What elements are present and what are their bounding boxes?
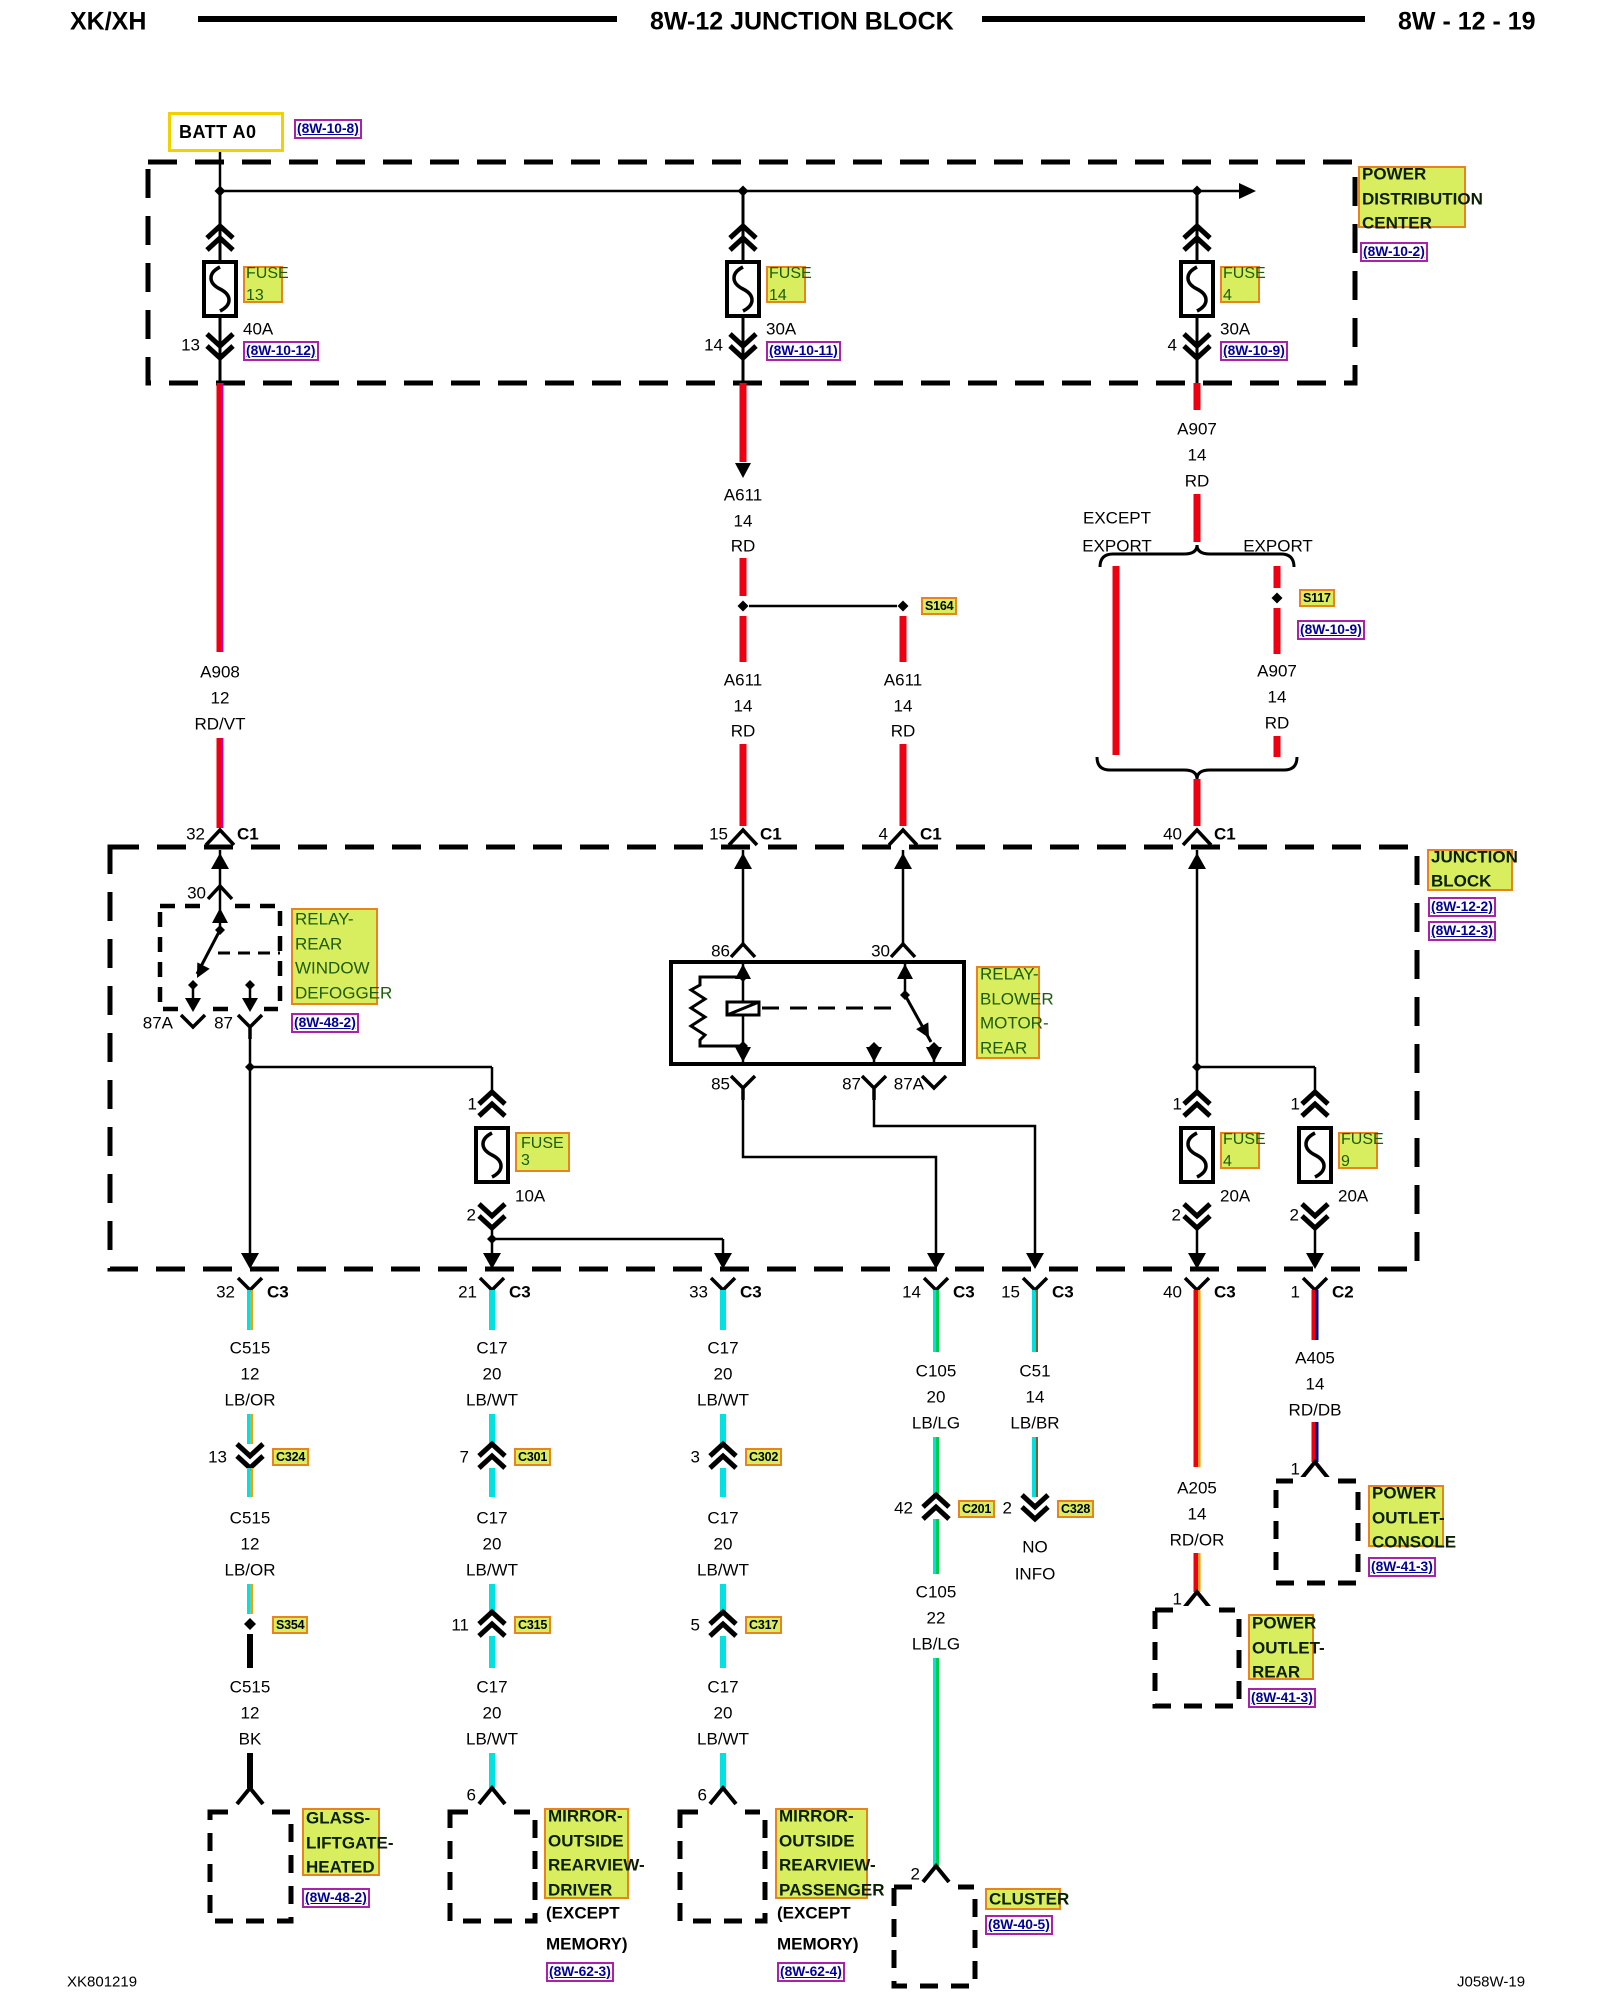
pin 14 label at C3 <box>902 1284 921 1301</box>
splice S164 node right <box>898 601 909 612</box>
blower relay switch pivot <box>900 990 910 1000</box>
fuse 4 pin 1 chevrons <box>1184 1092 1210 1116</box>
pin 7 label at C301 <box>460 1449 469 1466</box>
mirror outside rearview Passenger label <box>775 1808 868 1899</box>
wire label C17 at x492 <box>476 1340 507 1357</box>
relay rear window defogger pin 30 connector <box>208 886 232 899</box>
pin 13 label at C324 <box>208 1449 227 1466</box>
wire label 14 at x1315 <box>1306 1376 1325 1393</box>
relay rear window defogger label <box>291 908 378 1005</box>
Driver except memory note <box>546 1905 620 1922</box>
wire A907 to C1 <box>1194 779 1201 826</box>
connector C315 label <box>514 1616 551 1634</box>
link 8W-12-3 <box>1428 921 1496 941</box>
wire A611 from fuse 14 segment 1 <box>740 383 747 462</box>
splice S117 node <box>1272 593 1283 604</box>
fuse F4 rating 30A <box>1220 321 1250 338</box>
wire C51 LB/BR segment 1 <box>1032 1290 1036 1352</box>
pin 4 label at C1 <box>879 826 888 843</box>
connector C328 label <box>1057 1500 1094 1518</box>
fuse 4 pin 2 chevrons <box>1184 1204 1210 1228</box>
wire label 20 at x492 <box>483 1536 502 1553</box>
wire label LB/WT at x723 <box>697 1392 749 1409</box>
wire label A611 left branch <box>724 672 762 689</box>
connector chevrons above fuse 14 <box>730 226 756 250</box>
wire fuse 4 output to connector <box>1196 1228 1199 1266</box>
wire label LB/WT at x492 <box>466 1562 518 1579</box>
bus junction node at fuse 4 <box>1192 186 1203 197</box>
splice S164 label <box>921 597 957 615</box>
connector C3 name x723 <box>740 1284 762 1301</box>
pin 2 label fuse 9 JB <box>1290 1207 1299 1224</box>
link 8W-10-11 <box>766 341 841 361</box>
pin 40 label at C3 <box>1163 1284 1182 1301</box>
pin 2 label cluster <box>911 1866 920 1883</box>
wire label LB/WT at x723 <box>697 1562 749 1579</box>
wire label RD right branch <box>891 723 916 740</box>
junction node defogger output <box>245 1062 255 1072</box>
junction block label <box>1427 849 1513 891</box>
wire bus to fuse 4 <box>1196 191 1199 262</box>
blower relay pin 87A connector <box>922 1076 946 1088</box>
wire label LB/OR at x250 <box>224 1562 275 1579</box>
link 8W-10-8 <box>294 119 362 139</box>
fuse F4 label <box>1220 266 1260 303</box>
arrowhead up at C1 32 entry <box>211 853 229 869</box>
wire C17 LB/WT segment 3 x492 <box>489 1468 495 1497</box>
fuse 3 rating 10A <box>515 1188 545 1205</box>
arrowhead on wire A611 <box>735 463 751 478</box>
Passenger mirror dashed box <box>680 1812 765 1921</box>
link 8W-10-9 <box>1220 341 1288 361</box>
wire label 12 at x250 <box>241 1536 260 1553</box>
wire label 14 at x1197 <box>1188 1506 1207 1523</box>
connector C3 cavity 21 symbol <box>480 1278 504 1290</box>
connector C328 chevrons <box>1022 1495 1048 1519</box>
wire label 20 at x723 <box>714 1705 733 1722</box>
arrowhead up at C1 15 entry <box>734 853 752 869</box>
connector chevrons below fuse 4 <box>1184 334 1210 358</box>
wire label C105 at x936 <box>916 1584 957 1601</box>
wire label C515 at x250 <box>230 1510 271 1527</box>
fuse F4 <box>1181 262 1213 316</box>
connector C3 cavity 14 symbol <box>924 1278 948 1290</box>
wire A405 RD/DB segment 1 <box>1312 1290 1316 1340</box>
connector C324 label <box>272 1448 309 1466</box>
blower relay switch arm <box>905 995 931 1042</box>
link 8W-41-3 console outlet <box>1368 1557 1436 1577</box>
defogger relay switch pivot <box>215 925 225 935</box>
wire label RD export <box>1265 715 1290 732</box>
pin 15 label at C1 <box>709 826 728 843</box>
wire defogger output down to C3 32 <box>249 1067 252 1266</box>
wire blower 85 to C3 14 <box>743 1100 936 1266</box>
pin 4 of fuse 4 output <box>1168 337 1177 354</box>
arrowhead up inside defogger relay <box>212 908 228 923</box>
blower relay coil top node <box>738 972 748 982</box>
connector chevrons below fuse 13 <box>207 334 233 358</box>
wire label C17 at x723 <box>707 1679 738 1696</box>
glass liftgate heated pin connector <box>237 1788 263 1804</box>
wire C515 BK segment 2 <box>247 1753 253 1788</box>
wire label 20 at x492 <box>483 1705 502 1722</box>
wire A907 above brace <box>1194 494 1201 542</box>
connector chevrons below fuse 14 <box>730 334 756 358</box>
fuse F4jb <box>1181 1128 1213 1182</box>
wire label 20 at x936 <box>927 1389 946 1406</box>
pin 32 label at C3 <box>216 1284 235 1301</box>
blower relay coil ground wire <box>742 1015 745 1064</box>
connector chevrons above fuse 13 <box>207 226 233 250</box>
wire label LB/WT at x492 <box>466 1731 518 1748</box>
wire label A907 export <box>1257 663 1297 680</box>
wire C17 LB/WT segment 4 x492 <box>489 1584 495 1612</box>
pin 87 label defogger <box>214 1015 233 1032</box>
no info note <box>1022 1539 1048 1556</box>
pin 6 label Driver mirror <box>467 1787 476 1804</box>
wire A205 RD/OR segment 2 <box>1194 1553 1199 1592</box>
blower relay coil <box>727 1002 759 1015</box>
wire label 22 at x936 <box>927 1610 946 1627</box>
junction node fuse 3 output <box>487 1234 497 1244</box>
wire label A611 right branch <box>884 672 922 689</box>
page header left title XK/XH <box>70 10 146 35</box>
wire junction to fuse 3 <box>250 1066 492 1069</box>
wire A611 left branch below splice <box>740 616 747 662</box>
pin 6 label Passenger mirror <box>698 1787 707 1804</box>
defogger pin 87A connector <box>181 1015 205 1027</box>
connector C1 name middle-left <box>760 826 782 843</box>
pin 1 label at C2 <box>1291 1284 1300 1301</box>
relay blower motor rear label <box>976 966 1040 1059</box>
wire label C515 at x250 <box>230 1679 271 1696</box>
Driver mirror dashed box <box>450 1812 535 1921</box>
connector C317 chevrons <box>710 1612 736 1636</box>
wire label C17 at x723 <box>707 1510 738 1527</box>
footer left code XK801219 <box>67 1975 137 1990</box>
blower relay contact 87 node <box>869 1042 879 1052</box>
wire label C17 at x492 <box>476 1679 507 1696</box>
wire label C17 at x492 <box>476 1510 507 1527</box>
footer right code J058W-19 <box>1457 1975 1525 1990</box>
pin 13 of fuse 13 output <box>181 337 200 354</box>
splice S354 node <box>244 1618 256 1630</box>
splice S117 label <box>1299 589 1335 607</box>
wire label 12 at x250 <box>241 1366 260 1383</box>
connector C3 cavity 33 symbol <box>711 1278 735 1290</box>
variant label EXPORT <box>1243 538 1313 555</box>
link 8W-10-9 at S117 <box>1297 620 1365 640</box>
fuse F9jb <box>1299 1128 1331 1182</box>
pin 87 label blower relay <box>842 1076 861 1093</box>
pin 42 label at C201 <box>894 1500 913 1517</box>
splice S164 node left <box>738 601 749 612</box>
wire C17 LB/WT segment 5 x723 <box>720 1636 726 1668</box>
fuse F14 <box>727 262 759 316</box>
wire label A611 (upper) <box>724 487 762 504</box>
connector C315 chevrons <box>479 1612 505 1636</box>
battery feed label BATT A0 <box>168 112 284 152</box>
connector C3 cavity 15 symbol <box>1023 1278 1047 1290</box>
fuse F14 label <box>766 266 806 303</box>
defogger relay common wire from pin 30 <box>219 886 222 930</box>
wire label A908 gauge 12 <box>211 690 230 707</box>
wire C17 LB/WT segment 4 x723 <box>720 1584 726 1612</box>
defogger relay control dashed line <box>218 952 280 955</box>
wire blower 87 to C3 15 <box>874 1100 1035 1266</box>
wire A611 left branch to C1 <box>740 744 747 826</box>
wire label RD top right <box>1185 473 1210 490</box>
fuse 9 JB label <box>1338 1132 1378 1169</box>
pin 1 label fuse 4 JB <box>1173 1096 1182 1113</box>
wire export branch middle <box>1274 608 1281 654</box>
connector C201 chevrons <box>923 1495 949 1519</box>
wire C17 LB/WT segment 1 x723 <box>720 1290 726 1330</box>
wire defogger 87 down to junction <box>249 1039 252 1067</box>
wire C105 LB/LG segment 4 <box>933 1658 936 1866</box>
wire C17 LB/WT segment 2 x723 <box>720 1414 726 1444</box>
link 8W-40-5 cluster <box>985 1915 1053 1935</box>
wire label A907 top <box>1177 421 1217 438</box>
power outlet rear pin connector <box>1184 1592 1210 1608</box>
wire label A405 at x1315 <box>1295 1350 1335 1367</box>
fuse 4 JB label <box>1220 1132 1260 1169</box>
pin 40 label at C1 <box>1163 826 1182 843</box>
pin 11 label at C315 <box>451 1617 469 1634</box>
relay rear window defogger dashed box <box>160 906 280 1009</box>
cluster label <box>985 1888 1061 1910</box>
glass liftgate heated label <box>302 1808 380 1876</box>
wire export branch upper <box>1274 566 1281 588</box>
connector C1 cavity 15 symbol <box>729 830 757 845</box>
blower relay pin 85 connector <box>731 1076 755 1100</box>
pin 1 label power outlet console <box>1291 1461 1300 1478</box>
wire label LB/LG at x936 <box>912 1636 960 1653</box>
pin 2 label fuse 4 JB <box>1172 1207 1181 1224</box>
pin 85 label blower relay <box>711 1076 730 1093</box>
wire label C515 at x250 <box>230 1340 271 1357</box>
Driver mirror pin connector <box>479 1788 505 1804</box>
pin 5 label at C317 <box>691 1617 700 1634</box>
fuse F14 rating 30A <box>766 321 796 338</box>
pin 21 label at C3 <box>458 1284 477 1301</box>
pin 2 label at C328 <box>1003 1500 1012 1517</box>
link 8W-12-2 <box>1428 897 1496 917</box>
wire junction to fuse 9 <box>1197 1066 1315 1069</box>
fuse F13 <box>204 262 236 316</box>
blower relay pin 86 connector <box>731 944 755 957</box>
power outlet console pin connector <box>1302 1462 1328 1478</box>
link 8W-10-12 <box>243 341 319 361</box>
wire fuse3 junction to C3 33 <box>492 1238 723 1241</box>
blower relay contact 87A node <box>929 1042 939 1052</box>
pin 15 label at C3 <box>1001 1284 1020 1301</box>
connector chevrons above fuse 4 <box>1184 226 1210 250</box>
blower relay switch wire from pin 30 <box>904 962 907 995</box>
link 8W-41-3 rear outlet <box>1248 1688 1316 1708</box>
Passenger mirror pin connector <box>710 1788 736 1804</box>
wire label LB/OR at x250 <box>224 1392 275 1409</box>
pin 87A label blower relay <box>894 1076 924 1093</box>
defogger relay contact 87A <box>188 980 198 990</box>
connector C302 chevrons <box>710 1444 736 1468</box>
glass liftgate heated dashed box <box>210 1812 291 1921</box>
wire fuse 13 to PDC edge <box>219 316 222 383</box>
wire fuse3 output to C3 21 <box>491 1239 494 1266</box>
wire A907 from fuse 4 <box>1194 383 1201 410</box>
wire export branch lower <box>1274 736 1281 757</box>
power outlet rear dashed box <box>1155 1610 1239 1706</box>
wire C17 LB/WT segment 2 x492 <box>489 1414 495 1444</box>
wire A611 right branch to C1 <box>900 744 907 826</box>
wire label 14 gauge (upper) <box>734 513 753 530</box>
fuse 9 pin 2 chevrons <box>1302 1204 1328 1228</box>
connector C3 name x936 <box>953 1284 975 1301</box>
bus arrowhead <box>1239 183 1256 199</box>
defogger pin 87 connector <box>238 1015 262 1039</box>
wire label A908 color RD/VT <box>195 716 246 733</box>
connector C1 cavity 32 symbol <box>206 830 234 845</box>
wire label 14 top right <box>1188 447 1207 464</box>
wire C515 LB/OR segment 2 <box>247 1414 251 1444</box>
wire C515 LB/OR segment 4 <box>247 1584 251 1614</box>
cluster pin connector <box>923 1866 949 1882</box>
connector C1 cavity 40 symbol <box>1183 830 1211 845</box>
defogger relay switch arm <box>197 930 220 974</box>
wire label C105 at x936 <box>916 1363 957 1380</box>
connector C3 name x1035 <box>1052 1284 1074 1301</box>
link 8W-10-2 <box>1360 242 1428 262</box>
fuse F13 rating 40A <box>243 321 273 338</box>
power distribution center dashed box <box>148 162 1355 383</box>
wire label LB/BR at x1035 <box>1010 1415 1059 1432</box>
pin 30 label defogger relay <box>187 885 206 902</box>
fuse 9 rating 20A <box>1338 1188 1368 1205</box>
connector C1 name middle-right <box>920 826 942 843</box>
wire fuse 3 output <box>491 1228 494 1239</box>
wire from BATT A0 to bus <box>219 152 222 191</box>
wire C515 LB/OR segment 1 <box>247 1290 251 1330</box>
power outlet rear label <box>1248 1614 1314 1680</box>
wire label A908 <box>200 664 240 681</box>
junction node to fuse 9 <box>1192 1062 1202 1072</box>
connector C3 name x492 <box>509 1284 531 1301</box>
wire label 14 left branch <box>734 698 753 715</box>
wire C515 BK segment 1 <box>247 1634 253 1668</box>
connector C324 chevrons <box>237 1444 263 1468</box>
wire C1-4 into junction block <box>902 850 905 943</box>
power distribution center label <box>1358 166 1466 228</box>
pin 1 label fuse 9 JB <box>1291 1096 1300 1113</box>
wire C17 LB/WT segment 6 x723 <box>720 1753 726 1788</box>
wire label LB/LG at x936 <box>912 1415 960 1432</box>
wire C105 LB/LG segment 1 <box>933 1290 936 1352</box>
wire label 14 at x1035 <box>1026 1389 1045 1406</box>
link 8W-62-4 Passenger <box>777 1962 845 1982</box>
connector C301 chevrons <box>479 1444 505 1468</box>
blower relay coil bottom node <box>738 1041 748 1051</box>
wire fuse 9 output to connector <box>1314 1228 1317 1266</box>
fuse 9 pin 1 chevrons <box>1302 1092 1328 1116</box>
blower relay pin 87 connector <box>862 1076 886 1100</box>
wire C1-32 into junction block <box>219 850 222 886</box>
wire label A205 at x1197 <box>1177 1480 1217 1497</box>
wire label BK at x250 <box>239 1731 262 1748</box>
splice S354 label <box>272 1616 308 1634</box>
wire label RD color (upper) <box>731 538 756 555</box>
connector C3 name x1197 <box>1214 1284 1236 1301</box>
wire C105 LB/LG segment 2 <box>933 1437 936 1497</box>
wire C17 LB/WT segment 6 x492 <box>489 1753 495 1788</box>
wire A405 RD/DB segment 2 <box>1312 1422 1316 1462</box>
fuse 3 pin 2 chevrons <box>479 1204 505 1228</box>
wire C51 LB/BR segment 2 <box>1032 1437 1036 1497</box>
link 8W-62-3 Driver <box>546 1962 614 1982</box>
connector C317 label <box>745 1616 782 1634</box>
page header right 8W - 12 - 19 <box>1398 10 1536 35</box>
pin 2 label fuse 3 <box>467 1207 476 1224</box>
pin 87A label defogger <box>143 1015 173 1032</box>
wire C17 LB/WT segment 1 x492 <box>489 1290 495 1330</box>
blower relay coil feed wire <box>742 962 745 1002</box>
wire bus to fuse 14 <box>742 191 745 262</box>
pin 14 of fuse 14 output <box>704 337 723 354</box>
wire label 20 at x492 <box>483 1366 502 1383</box>
wire label 14 right branch <box>894 698 913 715</box>
connector C2 name x1315 <box>1332 1284 1354 1301</box>
wire label 12 at x250 <box>241 1705 260 1722</box>
wire except-export branch <box>1113 566 1120 755</box>
wire A908 12 RD/VT upper segment <box>216 383 221 652</box>
arrowhead up at C1 40 entry <box>1188 853 1206 869</box>
pin 33 label at C3 <box>689 1284 708 1301</box>
wire C515 LB/OR segment 3 <box>247 1468 251 1497</box>
splice S164 horizontal wire <box>749 605 897 608</box>
wire A611 right branch below splice <box>900 616 907 662</box>
arrowhead up at C1 4 entry <box>894 853 912 869</box>
blower relay resistor <box>691 977 743 1046</box>
wire fuse 14 to PDC edge <box>742 316 745 383</box>
wire C105 LB/LG segment 3 <box>933 1519 936 1574</box>
power outlet console dashed box <box>1276 1481 1358 1583</box>
junction block dashed box <box>110 847 1417 1269</box>
wire label LB/WT at x492 <box>466 1392 518 1409</box>
brace split top <box>1100 545 1294 567</box>
fuse F3 <box>476 1128 508 1182</box>
PDC bus wire B+ <box>220 190 1239 193</box>
fuse 4 rating 20A <box>1220 1188 1250 1205</box>
mirror outside rearview Driver label <box>544 1808 629 1899</box>
wire label 20 at x723 <box>714 1536 733 1553</box>
wire C17 LB/WT segment 3 x723 <box>720 1468 726 1497</box>
power outlet console label <box>1368 1485 1444 1547</box>
wire label C51 at x1035 <box>1019 1363 1050 1380</box>
blower relay control dashed line <box>762 1007 900 1010</box>
connector C201 label <box>958 1500 995 1518</box>
pin 1 label fuse 3 <box>468 1096 477 1113</box>
connector C3 cavity 32 symbol <box>238 1278 262 1290</box>
variant label EXCEPT EXPORT <box>1083 510 1151 527</box>
fuse 3 label <box>515 1132 570 1172</box>
wire C1-15 into junction block <box>742 850 745 943</box>
pin 32 label at C1 <box>186 826 205 843</box>
wire into fuse 3 <box>491 1067 494 1094</box>
pin 3 label at C302 <box>691 1449 700 1466</box>
wire label 14 export <box>1268 689 1287 706</box>
wire C17 LB/WT segment 5 x492 <box>489 1636 495 1668</box>
bus junction node at fuse 14 <box>738 186 749 197</box>
blower relay pin 30 connector <box>891 944 915 957</box>
